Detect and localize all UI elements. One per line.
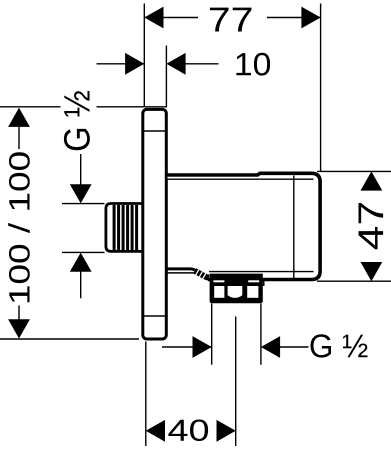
arrowhead 47 down: [361, 262, 383, 281]
arrowhead 40 left: [146, 420, 165, 442]
inlet connector thread bars: [114, 205, 137, 250]
arrowhead G1/2 down: [70, 184, 92, 203]
dimension line 100/100 lower segment: [18, 306, 20, 321]
label 40: [168, 419, 208, 441]
nut top slit left: [213, 280, 224, 282]
nut right step: [263, 281, 265, 287]
extension line 47 top: [317, 170, 391, 172]
arrowhead G1/2 bottom pointing right: [193, 336, 212, 358]
label G 1/2 left: [64, 91, 90, 150]
extension line 40 left: [145, 342, 147, 447]
leader line G1/2 upper: [80, 154, 82, 185]
arrowhead 10 left: [125, 53, 144, 75]
extension line below nut left: [211, 303, 213, 364]
dimension line 10 left tail: [97, 63, 145, 65]
extension line 47 bottom: [317, 280, 391, 282]
extension line left of 77: [143, 4, 145, 108]
dimension line G1/2 bottom left tail: [162, 346, 212, 348]
nut facet window left: [214, 286, 224, 298]
arrowhead G1/2 bottom pointing left: [261, 336, 280, 358]
leader line G1/2 lower: [80, 271, 82, 298]
dimension line G1/2 bottom right tail: [280, 346, 309, 348]
arrowhead G1/2 up: [70, 253, 92, 272]
extension line below nut right: [260, 303, 262, 364]
label 47: [359, 203, 384, 249]
neck step white tick 3: [203, 274, 206, 279]
nut top slit right: [248, 280, 259, 282]
label G 1/2 bottom: [310, 334, 367, 357]
extension line inlet bottom: [62, 251, 105, 253]
arrowhead 77 right: [301, 7, 320, 29]
plate inner line bottom: [143, 315, 167, 317]
arrowhead 100/100 bottom: [8, 319, 30, 338]
neck lower contour: [167, 273, 207, 279]
arrowhead 100/100 top: [8, 108, 30, 127]
neck step white tick 1: [196, 270, 199, 275]
extension line top of 100/100: [0, 106, 167, 108]
centerline outlet: [235, 317, 237, 447]
inlet connector G1/2 outline: [106, 204, 143, 252]
label 10: [236, 53, 270, 76]
nut facet window middle: [228, 286, 243, 298]
neck step white tick 2: [199, 272, 202, 277]
dimension line 77: [144, 17, 320, 19]
label 77: [210, 8, 251, 32]
extension line 10: [165, 46, 167, 108]
plate inner line top: [143, 130, 167, 132]
extension line bottom of 100/100: [0, 338, 139, 340]
arrowhead 77 left: [144, 7, 163, 29]
extension line right of 77: [320, 4, 322, 172]
cap joint line: [293, 176, 295, 279]
dimension line 10 right tail: [185, 63, 219, 65]
neck step band: [195, 271, 209, 278]
body inner bottom line: [209, 271, 314, 273]
outlet nut body: [210, 274, 263, 304]
extension line inlet top: [62, 203, 105, 205]
arrowhead 10 right: [166, 53, 185, 75]
wall plate: [143, 109, 167, 339]
neck upper contour: [167, 269, 209, 278]
label 100 / 100: [8, 152, 30, 302]
nut facet window right: [247, 286, 258, 298]
dimension line 100/100 upper segment: [18, 126, 20, 149]
arrowhead 40 right: [217, 420, 236, 442]
arrowhead 47 up: [361, 171, 383, 190]
body inner top line: [167, 178, 314, 180]
body outline top/right/bottom: [167, 173, 321, 279]
